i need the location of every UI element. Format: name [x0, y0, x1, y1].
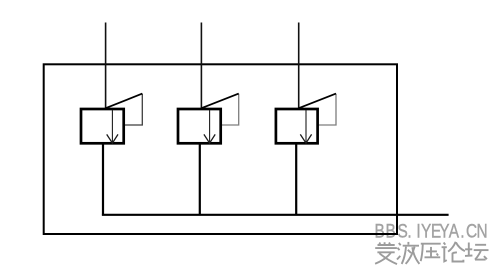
proportional flag V2: [201, 94, 238, 125]
wire input 2: [200, 23, 202, 109]
flow arrow V2: [204, 110, 215, 143]
watermark Chinese 坛: [465, 243, 489, 260]
watermark Chinese 论: [442, 242, 465, 262]
proportional flag V3: [299, 94, 336, 125]
valve box V1: [81, 109, 124, 143]
enclosure rectangle: [44, 64, 397, 234]
wire output 1: [102, 144, 104, 216]
svg-text:BBS.IYEYA.CN: BBS.IYEYA.CN: [374, 220, 487, 242]
flow arrow V1: [107, 110, 118, 143]
watermark Chinese 爱: [375, 242, 397, 264]
watermark Chinese 液: [397, 242, 419, 264]
watermark Chinese 压: [421, 244, 441, 261]
valve box V2: [178, 109, 221, 143]
bus wire to output port: [102, 214, 449, 216]
wire input 1: [105, 23, 107, 109]
wire output 3: [295, 144, 297, 216]
wire output 2: [199, 144, 201, 216]
flow arrow V3: [300, 110, 311, 143]
valve box V3: [276, 109, 318, 143]
proportional flag V1: [106, 94, 143, 125]
wire input 3: [298, 23, 300, 109]
